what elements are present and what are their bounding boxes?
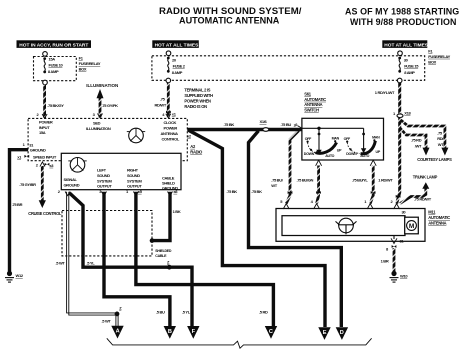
svg-text:.75 BK: .75 BK xyxy=(224,122,235,127)
svg-text:COURTESY LAMPS: COURTESY LAMPS xyxy=(417,157,452,162)
svg-text:FUSE/RELAY: FUSE/RELAY xyxy=(428,54,450,59)
svg-text:8 AMP: 8 AMP xyxy=(48,69,59,74)
svg-text:RADIO IS ON: RADIO IS ON xyxy=(184,104,207,109)
svg-text:WITH 9/88 PRODUCTION: WITH 9/88 PRODUCTION xyxy=(350,17,457,27)
svg-text:CRUISE CONTROL: CRUISE CONTROL xyxy=(28,211,62,216)
label bar HOT IN ACCY RUN OR START xyxy=(17,40,92,48)
svg-text:.75 BK: .75 BK xyxy=(251,189,262,194)
radio A2 dashed box xyxy=(28,118,187,160)
svg-text:FUSE/RELAY: FUSE/RELAY xyxy=(79,61,101,66)
svg-text:8 AMP: 8 AMP xyxy=(172,70,183,75)
connector triangle B xyxy=(164,326,176,339)
radio labels top xyxy=(39,120,180,142)
svg-text:HOT AT ALL TIMES: HOT AT ALL TIMES xyxy=(155,42,200,48)
junction dot on shield box xyxy=(150,238,155,243)
svg-text:ILLUMINATION: ILLUMINATION xyxy=(86,126,111,131)
wire antenna control feed horizontal xyxy=(187,128,302,131)
svg-text:SPEED INPUT: SPEED INPUT xyxy=(33,155,57,160)
wire .75 BK drop D: from feed down to triangle D xyxy=(249,131,342,327)
switch feed line xyxy=(302,127,364,129)
switch S61 box xyxy=(302,118,384,160)
svg-text:ANTENNA: ANTENNA xyxy=(428,220,446,225)
wire cruise control xyxy=(41,166,44,201)
svg-text:POWER WHEN: POWER WHEN xyxy=(184,98,211,103)
svg-text:.75 GY/BR: .75 GY/BR xyxy=(19,182,36,187)
switch S61 labels xyxy=(304,91,326,112)
wire .5 YL pin2 to F xyxy=(70,193,193,327)
svg-text:/WT: /WT xyxy=(415,144,422,149)
switch 2 (right) xyxy=(344,135,381,157)
inner box pin chevrons xyxy=(65,192,70,196)
svg-text:RIGHT: RIGHT xyxy=(127,168,139,173)
svg-text:OFF: OFF xyxy=(305,137,312,141)
shielded pair thin wires from pin 2 xyxy=(67,192,116,313)
svg-text:AUTOMATIC ANTENNA: AUTOMATIC ANTENNA xyxy=(179,16,280,26)
svg-text:.75 BR: .75 BR xyxy=(12,202,23,207)
svg-text:SYSTEM: SYSTEM xyxy=(97,178,112,183)
wire fuse2 to radio pin 4 (clock power) xyxy=(167,83,170,118)
connector X1/6 xyxy=(263,128,269,132)
svg-text:.5 YL: .5 YL xyxy=(182,309,191,314)
wire .5 BU pin3 to B xyxy=(104,192,170,327)
svg-text:GROUND: GROUND xyxy=(30,148,46,153)
branch to courtesy lamp left xyxy=(400,128,426,148)
node Z (lower) xyxy=(115,312,120,317)
wire .75 BU/YL switch pin1 to M11 pin 1 xyxy=(370,166,373,204)
svg-text:SUPPLIED WITH: SUPPLIED WITH xyxy=(184,93,213,98)
svg-text:AS OF MY 1988 STARTING: AS OF MY 1988 STARTING xyxy=(345,6,459,16)
svg-text:RADIO: RADIO xyxy=(190,149,203,154)
svg-text:TRUNK LAMP: TRUNK LAMP xyxy=(413,175,438,180)
svg-text:1 BK: 1 BK xyxy=(173,209,181,214)
svg-text:8 AMP: 8 AMP xyxy=(404,70,415,75)
svg-text:A: A xyxy=(116,329,120,335)
M11 automatic antenna box xyxy=(276,209,425,242)
branch to courtesy lamp right xyxy=(400,120,445,149)
wire fuse15 down xyxy=(398,83,401,114)
svg-text:W10: W10 xyxy=(400,274,408,279)
svg-text:.5 BU: .5 BU xyxy=(156,309,165,314)
svg-text:GROUND: GROUND xyxy=(64,183,80,188)
M11 pin 2 xyxy=(396,195,401,198)
switch bottom pins 4 and 1 xyxy=(316,160,322,166)
svg-text:F: F xyxy=(192,329,196,335)
svg-text:CONTROL: CONTROL xyxy=(162,136,180,141)
pin chevron 2 xyxy=(42,114,47,118)
radio speaker symbol top xyxy=(127,128,145,143)
svg-text:E: E xyxy=(323,330,327,336)
label bar HOT AT ALL TIMES (left) xyxy=(152,40,199,48)
svg-text:OUTPUT: OUTPUT xyxy=(97,184,112,189)
svg-text:.75 BK: .75 BK xyxy=(226,189,237,194)
connector triangle F xyxy=(187,326,199,339)
wire RD/WT main vertical to M11 pin 2 xyxy=(397,118,400,204)
svg-text:M: M xyxy=(409,223,414,230)
wire ground pin1 to W12 xyxy=(10,150,29,272)
svg-text:OUTPUT: OUTPUT xyxy=(127,184,142,189)
fuse F1 labels xyxy=(79,56,101,72)
svg-text:ILLUMINATION: ILLUMINATION xyxy=(86,83,118,88)
connector triangle C xyxy=(265,326,277,339)
label bar HOT AT ALL TIMES (right) xyxy=(382,40,429,48)
svg-text:.75 BU/GN: .75 BU/GN xyxy=(297,177,314,182)
svg-text:SOUND: SOUND xyxy=(97,173,110,178)
svg-text:BOX: BOX xyxy=(79,67,87,72)
antenna symbol xyxy=(336,218,357,234)
svg-text:TERMINAL 2 IS: TERMINAL 2 IS xyxy=(184,88,210,93)
note TERMINAL 2 xyxy=(184,88,213,109)
connector x1 at pin 4 xyxy=(166,111,171,114)
svg-text:POWER: POWER xyxy=(39,120,53,125)
connector triangle E xyxy=(318,327,330,340)
F1 labels right xyxy=(428,48,450,64)
svg-text:C: C xyxy=(269,329,273,335)
ground W12 xyxy=(5,271,24,282)
svg-text:.75 BU: .75 BU xyxy=(281,122,292,127)
speaker symbol inner xyxy=(68,158,86,173)
bracket xyxy=(107,338,372,348)
svg-text:CABLE: CABLE xyxy=(155,254,167,258)
M11 pin 31 ground xyxy=(393,236,395,240)
svg-text:SOUND: SOUND xyxy=(127,173,140,178)
svg-text:HOT IN ACCY, RUN OR START: HOT IN ACCY, RUN OR START xyxy=(19,42,88,48)
svg-text:OFF: OFF xyxy=(344,137,351,141)
svg-text:DOWN: DOWN xyxy=(346,152,357,156)
svg-text:BOX: BOX xyxy=(428,59,436,64)
svg-text:CLOCK: CLOCK xyxy=(164,120,177,125)
svg-text:S61: S61 xyxy=(304,91,311,96)
inner box labels xyxy=(64,168,179,191)
svg-text:15A: 15A xyxy=(39,130,46,135)
radio inner sound box xyxy=(61,153,181,189)
svg-text:.5 WT: .5 WT xyxy=(56,260,66,265)
fuse F1 dashed box (left) xyxy=(34,57,77,81)
wire .75 BK drop E: from x2 down to triangle E xyxy=(189,130,326,327)
svg-text:AUTOMATIC: AUTOMATIC xyxy=(428,215,450,220)
switch 1 (left) xyxy=(304,137,342,158)
radio antenna control pin x2 xyxy=(188,128,193,131)
svg-text:AUTO: AUTO xyxy=(325,154,334,158)
svg-text:INPUT: INPUT xyxy=(39,125,50,130)
svg-text:.75 RD/WT: .75 RD/WT xyxy=(414,197,432,202)
svg-text:RD/WT: RD/WT xyxy=(155,103,167,108)
svg-text:1 RD/YL/WT: 1 RD/YL/WT xyxy=(375,90,395,95)
svg-text:M11: M11 xyxy=(428,210,436,215)
svg-text:.75 BK/GY: .75 BK/GY xyxy=(47,103,64,108)
node X18 xyxy=(393,111,412,118)
svg-text:ANTENNA: ANTENNA xyxy=(304,102,322,107)
svg-text:X1/6: X1/6 xyxy=(260,119,268,124)
svg-text:DOWN: DOWN xyxy=(304,152,315,156)
svg-text:.75 BU/YL: .75 BU/YL xyxy=(352,177,369,182)
svg-text:WT: WT xyxy=(271,183,277,188)
svg-text:1 BR: 1 BR xyxy=(381,259,389,264)
wire .75 BU/WT from pin2 wire down to M11 pin 5 xyxy=(286,131,299,204)
wire .75 BU/GN switch pin4 to M11 pin 4 xyxy=(317,166,319,204)
wire .5 RD pin1 to C xyxy=(136,192,274,327)
svg-text:WT: WT xyxy=(438,142,444,147)
fuse FUSE 10 xyxy=(43,52,64,85)
svg-text:LEFT: LEFT xyxy=(97,168,107,173)
fuse/relay box dashed panel (wide) xyxy=(152,56,425,81)
svg-text:.5 WT: .5 WT xyxy=(102,318,112,323)
svg-text:HOT AT ALL TIMES: HOT AT ALL TIMES xyxy=(384,42,429,48)
svg-text:SYSTEM: SYSTEM xyxy=(127,178,142,183)
connector triangle A xyxy=(111,326,123,339)
svg-text:SIGNAL: SIGNAL xyxy=(64,177,78,182)
svg-text:W12: W12 xyxy=(16,273,24,278)
svg-text:.75 RD: .75 RD xyxy=(411,138,422,143)
svg-text:SHIELDED: SHIELDED xyxy=(155,249,172,253)
svg-text:SED: SED xyxy=(93,121,101,126)
svg-text:1 RD/WT: 1 RD/WT xyxy=(378,177,393,182)
svg-text:POWER: POWER xyxy=(164,125,178,130)
fuse FUSE 2 xyxy=(166,51,186,83)
ground W10 xyxy=(390,271,409,282)
svg-text:FUSE 2: FUSE 2 xyxy=(173,64,186,69)
svg-text:D: D xyxy=(340,330,344,336)
M11 labels xyxy=(428,210,450,226)
svg-text:FUSE 10: FUSE 10 xyxy=(49,62,64,67)
shielded cable dashed box xyxy=(62,211,152,256)
connector triangle D xyxy=(336,327,348,340)
svg-text:B: B xyxy=(168,329,172,335)
svg-text:X18: X18 xyxy=(404,111,411,116)
svg-text:.75 BU/: .75 BU/ xyxy=(271,177,283,182)
svg-text:MAN: MAN xyxy=(372,135,380,139)
svg-text:MAN: MAN xyxy=(332,137,340,141)
motor M xyxy=(405,217,419,234)
fuse FUSE 15 xyxy=(397,51,419,83)
svg-text:15A: 15A xyxy=(49,56,56,61)
ILLUMINATION arrow xyxy=(86,83,118,118)
svg-text:ANTENNA: ANTENNA xyxy=(161,131,179,136)
svg-text:FUSE 15: FUSE 15 xyxy=(404,64,419,69)
svg-text:.5 YL: .5 YL xyxy=(87,260,96,265)
svg-text:.75 GY/PK: .75 GY/PK xyxy=(102,103,119,108)
node Z (upper) xyxy=(167,265,172,270)
wire 1 BK from x8 to shield xyxy=(153,192,170,241)
svg-text:SWITCH: SWITCH xyxy=(304,108,319,113)
svg-text:.5 RD: .5 RD xyxy=(259,309,268,314)
wire fuse10 to radio pin 2 xyxy=(43,85,46,118)
svg-text:AUTOMATIC: AUTOMATIC xyxy=(304,97,326,102)
